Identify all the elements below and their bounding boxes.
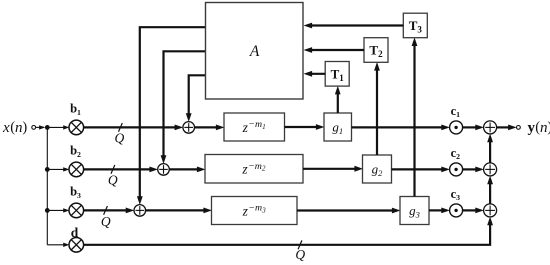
wire bus to multiplier y=169.4 <box>47 167 69 171</box>
wire input bus vertical <box>46 127 48 244</box>
svg-text:c2: c2 <box>451 146 461 161</box>
svg-text:b2: b2 <box>70 143 81 158</box>
svg-text:n: n <box>15 120 23 136</box>
block A (state matrix) <box>206 3 304 100</box>
label b3 <box>70 184 81 199</box>
wire bottom d line to output adder 3 <box>84 217 493 245</box>
wire adder3 to delay box 3 <box>146 208 212 214</box>
node x(n) input label <box>2 120 27 136</box>
input terminal circle <box>32 126 36 130</box>
multiplier b1 (otimes) <box>69 120 84 135</box>
output terminal circle <box>517 126 521 130</box>
svg-text:A: A <box>249 43 260 60</box>
label b1 <box>70 101 81 116</box>
gain block g2 <box>363 155 392 183</box>
quantizer Q bottom (slash) <box>295 240 305 262</box>
wire c3 to output adder 3 <box>463 208 484 214</box>
wire A output 1 (A left edge down to adder) <box>186 75 206 122</box>
svg-text:c3: c3 <box>451 187 461 202</box>
svg-text:d: d <box>71 225 79 240</box>
delay block z^-m1 <box>224 113 285 141</box>
multiplier d (otimes) <box>69 238 84 253</box>
svg-text:b1: b1 <box>70 101 81 116</box>
quantizer Q row2 (slash) <box>108 165 118 188</box>
wire input terminal to junction <box>36 125 46 129</box>
wire A output 3 (A left edge down to adder) <box>137 27 206 205</box>
wire bus to multiplier y=127.4 <box>47 125 69 129</box>
node junction dot row1 <box>45 125 50 130</box>
svg-text:Q: Q <box>108 173 118 188</box>
label c1 <box>451 104 461 119</box>
adder 3 (row3) <box>134 205 146 217</box>
multiplier c3 (odot) <box>450 204 463 217</box>
wire c2 to output adder 2 <box>463 167 484 173</box>
svg-text:c1: c1 <box>451 104 461 119</box>
wire T3 to block A <box>304 23 404 29</box>
wire bus to multiplier y=244.8 <box>47 243 69 247</box>
wire g3 to T3 <box>412 37 418 196</box>
svg-text:Q: Q <box>101 214 111 229</box>
wire c1 to output adder 1 <box>463 125 484 131</box>
wire bus to multiplier y=210.4 <box>47 208 69 212</box>
quantizer Q row1 (slash) <box>115 123 125 146</box>
block T2 <box>364 38 388 63</box>
node junction dot row2 <box>45 167 50 172</box>
node junction dot row3 <box>45 208 50 213</box>
block T1 <box>325 62 349 87</box>
wire output adder2 to adder1 <box>487 134 493 163</box>
wire g1 to c1 multiplier <box>352 125 450 131</box>
wire adder2 to delay box 2 <box>169 167 205 173</box>
wire output adder1 to terminal <box>497 125 517 131</box>
wire delay 2 to gain g2 <box>303 166 363 172</box>
quantizer Q row3 (slash) <box>101 206 111 229</box>
multiplier b3 (otimes) <box>69 203 84 218</box>
output adder 2 (oplus) <box>484 163 497 176</box>
gain block g3 <box>400 197 429 225</box>
adder 1 (row1) <box>183 122 195 134</box>
wire b3 to adder3 <box>84 208 135 214</box>
label c2 <box>451 146 461 161</box>
multiplier c1 (odot) <box>450 121 463 134</box>
svg-text:): ) <box>22 120 27 136</box>
delay block z^-m3 <box>212 197 298 225</box>
wire output adder3 to adder2 <box>487 176 493 204</box>
multiplier c2 (odot) <box>450 163 463 176</box>
wire delay 1 to gain g1 <box>285 124 325 130</box>
delay block z^-m2 <box>205 155 303 184</box>
label c3 <box>451 187 461 202</box>
adder 2 (row2) <box>158 164 170 176</box>
wire b2 to adder2 <box>84 167 158 173</box>
gain block g1 <box>324 113 352 141</box>
wire g1 to T1 <box>335 86 341 113</box>
wire adder1 to delay box 1 <box>195 125 225 131</box>
label d <box>71 225 79 240</box>
wire T2 to block A <box>304 47 365 53</box>
output adder 3 (oplus) <box>484 204 497 217</box>
label b2 <box>70 143 81 158</box>
wire A output 2 (A left edge down to adder) <box>161 51 206 164</box>
wire delay 3 to gain g3 <box>297 208 401 214</box>
node y(n) output label <box>528 120 550 136</box>
wire T1 to block A <box>304 71 326 77</box>
wire g2 to T2 <box>374 62 380 155</box>
svg-text:x: x <box>2 120 10 136</box>
svg-text:Q: Q <box>115 131 125 146</box>
svg-text:b3: b3 <box>70 184 81 199</box>
output adder 1 (oplus) <box>484 121 497 134</box>
wire g2 to c2 multiplier <box>392 167 450 173</box>
wire b1 to adder1 <box>84 125 184 131</box>
wire g3 to c3 multiplier <box>429 208 450 214</box>
svg-text:Q: Q <box>295 247 305 262</box>
block T3 <box>403 13 427 38</box>
svg-text:n: n <box>540 120 548 136</box>
multiplier b2 (otimes) <box>69 162 84 177</box>
